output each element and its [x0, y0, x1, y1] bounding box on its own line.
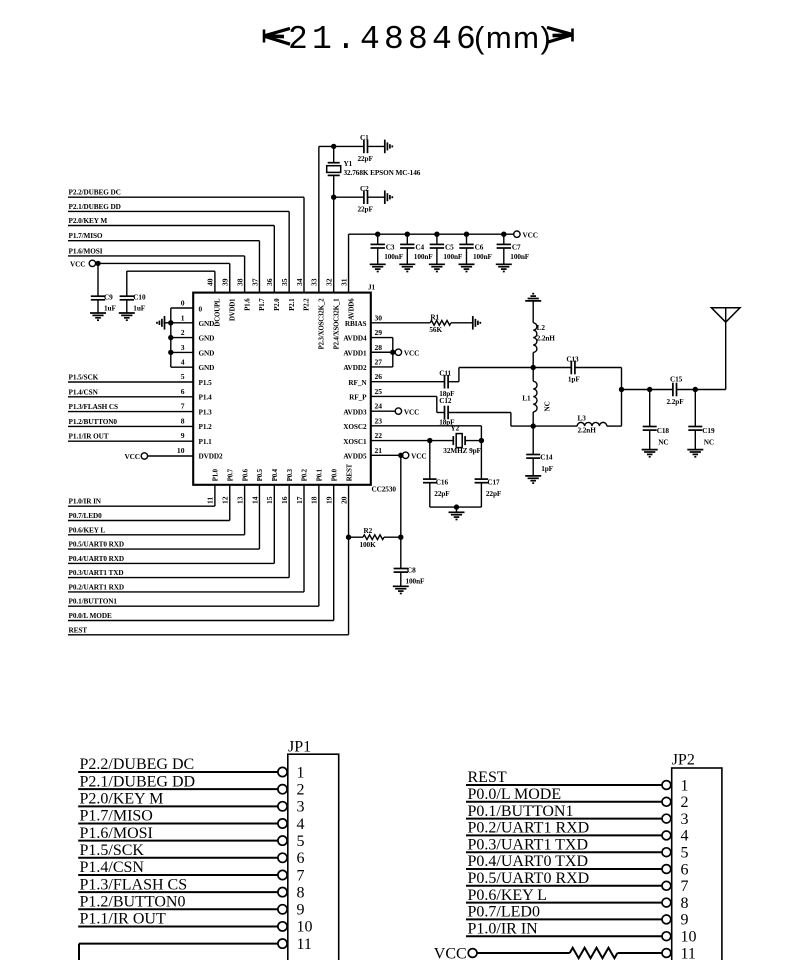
svg-text:P0.3/UART1 TXD: P0.3/UART1 TXD	[69, 569, 124, 577]
svg-text:C1: C1	[360, 134, 369, 142]
svg-text:7: 7	[181, 402, 185, 411]
svg-text:2.2pF: 2.2pF	[667, 398, 685, 406]
svg-text:C13: C13	[566, 355, 579, 363]
net P1.6/MOSI	[68, 247, 245, 292]
JP2 pin 9	[466, 904, 689, 929]
svg-text:22pF: 22pF	[486, 490, 502, 498]
svg-text:XOSC2: XOSC2	[343, 423, 367, 431]
dimension annotation 21.48846 (mm)	[264, 20, 573, 58]
svg-text:REST: REST	[346, 463, 353, 481]
svg-text:AVDD6: AVDD6	[348, 298, 355, 320]
power VCC pullup to JP2 pin 11	[434, 945, 662, 960]
wire antenna feed	[622, 387, 673, 392]
svg-text:18: 18	[310, 496, 319, 504]
svg-text:C7: C7	[512, 243, 521, 251]
svg-text:R1: R1	[430, 313, 439, 321]
svg-text:100nF: 100nF	[443, 253, 463, 261]
wire GND bracket pins 0-4	[164, 308, 194, 367]
net P0.3/UART1 TXD	[68, 485, 289, 578]
svg-text:12: 12	[221, 496, 230, 504]
svg-text:1uF: 1uF	[104, 305, 116, 313]
svg-text:P1.5: P1.5	[199, 379, 213, 387]
JP2 pin 4	[466, 820, 689, 845]
ground C7	[496, 264, 512, 271]
svg-text:AVDD5: AVDD5	[343, 453, 367, 461]
capacitor C10 1uF	[120, 271, 215, 313]
svg-text:P1.6/MOSI: P1.6/MOSI	[69, 247, 103, 255]
svg-text:C6: C6	[475, 243, 484, 251]
power VCC to DVDD2 pin 10	[125, 453, 194, 461]
ground C4	[399, 264, 415, 271]
svg-text:24: 24	[375, 402, 383, 411]
svg-text:7: 7	[297, 867, 305, 884]
svg-text:38: 38	[235, 278, 244, 286]
svg-text:40: 40	[206, 278, 215, 286]
ground Y2 caps	[449, 512, 465, 519]
capacitor C18 NC	[643, 390, 670, 450]
capacitor C12 18pF on RF_P	[371, 396, 533, 426]
svg-text:P0.0/L MODE: P0.0/L MODE	[468, 786, 562, 803]
svg-text:DCOUPL: DCOUPL	[215, 298, 222, 327]
svg-text:Y2: Y2	[451, 424, 460, 432]
svg-text:P0.2/UART1 RXD: P0.2/UART1 RXD	[69, 583, 125, 591]
svg-text:VCC: VCC	[125, 453, 140, 461]
svg-text:P2.2: P2.2	[304, 298, 311, 311]
svg-text:P0.6/KEY L: P0.6/KEY L	[69, 526, 106, 534]
inductor L2 2.2nH	[531, 323, 556, 370]
svg-text:27: 27	[375, 357, 383, 366]
svg-text:29: 29	[375, 328, 383, 337]
capacitor C13 1pF	[533, 355, 621, 383]
IC left pin names	[199, 305, 224, 460]
crystal Y1 32.768K EPSON MC-146	[327, 146, 421, 292]
svg-text:22pF: 22pF	[358, 155, 374, 163]
svg-text:AVDD2: AVDD2	[343, 364, 367, 372]
svg-text:16: 16	[280, 496, 289, 504]
svg-text:P1.0/IR IN: P1.0/IR IN	[468, 920, 539, 937]
svg-text:C16: C16	[436, 478, 449, 486]
svg-text:P1.6/MOSI: P1.6/MOSI	[80, 825, 153, 842]
svg-text:(mm): (mm)	[474, 20, 552, 55]
IC top pin names rotated	[215, 298, 356, 350]
svg-text:L2: L2	[537, 324, 546, 332]
svg-text:P1.1/IR OUT: P1.1/IR OUT	[69, 433, 109, 441]
JP1 pin 5	[78, 825, 304, 850]
svg-text:14: 14	[250, 496, 259, 504]
svg-text:11: 11	[206, 497, 215, 504]
svg-text:C3: C3	[386, 243, 395, 251]
svg-text:P0.4: P0.4	[272, 468, 279, 481]
svg-text:1pF: 1pF	[541, 465, 553, 473]
svg-text:VCC: VCC	[434, 945, 467, 960]
net P1.4/CSN	[68, 388, 193, 397]
svg-text:9: 9	[181, 431, 185, 440]
svg-text:2.2nH: 2.2nH	[578, 427, 597, 435]
capacitor C2 22pF	[331, 185, 385, 214]
svg-text:P1.7/MISO: P1.7/MISO	[80, 808, 153, 825]
svg-text:P1.7/MISO: P1.7/MISO	[69, 232, 103, 240]
svg-text:5: 5	[181, 372, 185, 381]
JP2 pin 10	[466, 920, 697, 945]
net P0.0/L MODE	[68, 485, 334, 621]
ground R1	[473, 316, 481, 330]
svg-text:C15: C15	[670, 376, 683, 384]
svg-text:P1.4: P1.4	[199, 394, 213, 402]
svg-text:36: 36	[265, 278, 274, 286]
JP2 pin 3	[466, 803, 689, 828]
svg-text:VCC: VCC	[404, 350, 419, 358]
JP1 pin 3	[78, 791, 304, 816]
svg-text:10: 10	[297, 919, 313, 936]
svg-text:13: 13	[235, 496, 244, 504]
svg-text:P1.3/FLASH CS: P1.3/FLASH CS	[80, 876, 188, 893]
svg-text:C9: C9	[104, 294, 113, 302]
svg-text:P1.1: P1.1	[199, 438, 213, 446]
svg-text:C4: C4	[415, 243, 424, 251]
capacitor C1 22pF	[358, 134, 385, 163]
svg-text:32MHZ 9pF: 32MHZ 9pF	[443, 447, 481, 455]
svg-text:6: 6	[181, 387, 185, 396]
svg-text:GND: GND	[199, 364, 215, 372]
svg-text:1: 1	[181, 313, 185, 322]
ground C14	[525, 476, 541, 483]
svg-text:100nF: 100nF	[384, 253, 404, 261]
svg-text:100K: 100K	[360, 541, 377, 549]
ground C8	[393, 586, 409, 593]
svg-text:P2.0/KEY M: P2.0/KEY M	[69, 217, 108, 225]
svg-text:P1.5/SCK: P1.5/SCK	[80, 842, 145, 859]
svg-text:L3: L3	[578, 414, 587, 422]
svg-text:P2.1/DUBEG DD: P2.1/DUBEG DD	[80, 773, 196, 790]
svg-text:1: 1	[297, 764, 305, 781]
ground C5	[429, 264, 445, 271]
svg-text:P2.4/XSOC32K_1: P2.4/XSOC32K_1	[333, 298, 340, 350]
net P1.0/IR IN	[68, 485, 215, 506]
svg-text:C18: C18	[657, 427, 670, 435]
svg-text:P0.2: P0.2	[302, 468, 309, 481]
svg-text:25: 25	[375, 387, 383, 396]
ground C1	[385, 140, 393, 154]
svg-text:9: 9	[297, 902, 305, 919]
svg-text:21: 21	[375, 446, 383, 455]
JP2 pin 11	[662, 945, 696, 960]
svg-text:P0.0: P0.0	[331, 468, 338, 481]
JP1 pin 11	[79, 936, 312, 960]
svg-text:10: 10	[177, 446, 185, 455]
connector JP1	[288, 739, 339, 960]
svg-text:6: 6	[297, 850, 305, 867]
net P1.7/MISO	[68, 232, 259, 292]
svg-text:JP2: JP2	[672, 752, 695, 769]
svg-text:XOSC1: XOSC1	[343, 438, 367, 446]
svg-text:P2.0: P2.0	[274, 298, 281, 311]
svg-text:17: 17	[295, 496, 304, 504]
svg-text:DVDD2: DVDD2	[199, 453, 224, 461]
svg-text:P0.6: P0.6	[242, 468, 249, 481]
JP1 pin 6	[78, 842, 304, 867]
svg-text:VCC: VCC	[404, 409, 419, 417]
capacitor C14 1pF	[526, 426, 553, 476]
svg-text:31: 31	[339, 278, 348, 286]
svg-text:JP1: JP1	[288, 739, 311, 756]
svg-text:C14: C14	[540, 454, 553, 462]
svg-text:4: 4	[181, 357, 185, 366]
svg-text:23: 23	[375, 416, 383, 425]
JP1 pin 2	[78, 773, 304, 798]
power VCC to DVDD1 pin 39	[70, 260, 230, 292]
svg-text:32.768K EPSON MC-146: 32.768K EPSON MC-146	[344, 169, 421, 177]
net P1.5/SCK	[68, 374, 193, 383]
svg-text:35: 35	[280, 278, 289, 286]
svg-text:P0.5: P0.5	[257, 468, 264, 481]
svg-text:15: 15	[265, 496, 274, 504]
svg-text:AVDD4: AVDD4	[343, 335, 367, 343]
power VCC to AVDD5 pin 21	[371, 452, 427, 461]
svg-text:20: 20	[339, 496, 348, 504]
svg-text:100nF: 100nF	[414, 253, 434, 261]
svg-text:30: 30	[375, 313, 383, 322]
svg-text:4: 4	[297, 816, 305, 833]
svg-text:22pF: 22pF	[358, 206, 374, 214]
svg-text:L1: L1	[522, 394, 531, 402]
svg-text:P0.7/LED0: P0.7/LED0	[69, 512, 103, 520]
svg-text:NC: NC	[544, 401, 552, 411]
power VCC to AVDD4 AVDD1 AVDD2	[371, 338, 420, 367]
capacitor C5 100nF	[430, 232, 463, 265]
svg-text:P1.3/FLASH CS: P1.3/FLASH CS	[69, 403, 119, 411]
ground pins GND	[157, 316, 165, 330]
svg-text:C17: C17	[487, 478, 500, 486]
IC bottom pin names rotated	[213, 463, 354, 481]
svg-text:NC: NC	[658, 438, 668, 446]
svg-text:5: 5	[681, 845, 689, 862]
svg-text:3: 3	[297, 799, 305, 816]
svg-text:GND: GND	[199, 349, 215, 357]
svg-text:J1: J1	[368, 284, 376, 292]
svg-text:11: 11	[681, 945, 696, 960]
svg-text:22pF: 22pF	[434, 490, 450, 498]
svg-text:P1.2: P1.2	[199, 423, 213, 431]
svg-text:32: 32	[325, 278, 334, 286]
IC pin numbers	[177, 278, 382, 504]
svg-text:C8: C8	[407, 566, 416, 574]
svg-text:RF_N: RF_N	[348, 379, 367, 387]
svg-text:8: 8	[297, 884, 305, 901]
svg-text:P0.3: P0.3	[287, 468, 294, 481]
net P0.6/KEY L	[68, 485, 245, 535]
svg-text:VCC: VCC	[411, 453, 426, 461]
svg-text:P1.4/CSN: P1.4/CSN	[80, 859, 145, 876]
svg-text:P2.2/DUBEG DC: P2.2/DUBEG DC	[80, 756, 195, 773]
svg-text:2: 2	[181, 328, 185, 337]
svg-text:8: 8	[181, 416, 185, 425]
svg-text:R2: R2	[364, 527, 373, 535]
svg-text:P0.4/UART0 TXD: P0.4/UART0 TXD	[468, 853, 589, 870]
JP2 pin 1	[466, 769, 689, 794]
resistor R2 100K	[346, 455, 404, 549]
JP1 pin 1	[78, 756, 304, 781]
svg-text:2: 2	[297, 781, 305, 798]
antenna E1	[711, 308, 740, 390]
crystal Y2 32MHZ 9pF	[371, 424, 484, 455]
svg-text:P1.1/IR OUT: P1.1/IR OUT	[80, 911, 166, 928]
svg-text:C2: C2	[360, 185, 369, 193]
svg-text:P0.7: P0.7	[227, 468, 234, 481]
svg-text:RF_P: RF_P	[349, 394, 367, 402]
svg-text:VCC: VCC	[523, 232, 538, 240]
capacitor C3 100nF	[371, 232, 404, 265]
IC right pin names	[343, 320, 367, 460]
svg-text:8: 8	[681, 895, 689, 912]
resistor JP2 pullup	[570, 948, 618, 958]
svg-text:19: 19	[325, 496, 334, 504]
svg-text:P0.1: P0.1	[317, 468, 324, 481]
svg-text:C19: C19	[702, 427, 715, 435]
svg-text:10: 10	[681, 929, 697, 946]
svg-text:CC2530: CC2530	[372, 486, 397, 494]
inductor L3 2.2nH	[533, 414, 621, 434]
svg-text:100nF: 100nF	[406, 577, 426, 585]
capacitor C17 22pF	[475, 441, 502, 508]
svg-text:2: 2	[681, 794, 689, 811]
resistor R1 56K	[371, 313, 473, 333]
connector JP2	[672, 752, 722, 960]
svg-text:P0.0/L MODE: P0.0/L MODE	[69, 612, 112, 620]
ground C19	[687, 450, 703, 457]
svg-text:P1.7: P1.7	[259, 298, 266, 311]
svg-text:P2.1: P2.1	[289, 298, 296, 311]
capacitor C6 100nF	[459, 232, 492, 265]
svg-text:3: 3	[681, 811, 689, 828]
svg-text:REST: REST	[69, 626, 88, 634]
JP2 pin 6	[466, 853, 689, 878]
svg-text:0: 0	[181, 299, 185, 308]
svg-text:26: 26	[375, 372, 383, 381]
svg-text:P0.5/UART0 RXD: P0.5/UART0 RXD	[468, 870, 590, 887]
svg-text:0: 0	[199, 305, 203, 313]
svg-text:100nF: 100nF	[510, 253, 530, 261]
svg-text:1pF: 1pF	[568, 375, 580, 383]
wire pin33 to C1	[319, 144, 364, 293]
svg-text:C11: C11	[439, 370, 451, 378]
svg-text:C5: C5	[445, 243, 454, 251]
ground C3	[370, 264, 386, 271]
svg-text:1: 1	[681, 777, 689, 794]
JP1 pin 10	[78, 911, 312, 936]
net P0.4/UART0 RXD	[68, 485, 274, 564]
inductor L1 NC	[522, 368, 551, 429]
svg-text:P1.4/CSN: P1.4/CSN	[69, 388, 99, 396]
ground C9	[90, 313, 106, 320]
wire C13-L3 join	[619, 368, 624, 427]
JP2 pin 7	[466, 870, 689, 895]
svg-text:P0.1/BUTTON1: P0.1/BUTTON1	[69, 598, 118, 606]
svg-text:VCC: VCC	[70, 260, 85, 268]
svg-text:21.48846: 21.48846	[288, 21, 480, 58]
svg-text:RBIAS: RBIAS	[345, 320, 367, 328]
net P1.3/FLASH CS	[68, 403, 193, 412]
svg-text:22: 22	[375, 431, 383, 440]
svg-text:7: 7	[681, 878, 689, 895]
svg-text:P2.3/XOSC32K_2: P2.3/XOSC32K_2	[319, 298, 326, 350]
svg-text:P2.0/KEY M: P2.0/KEY M	[80, 791, 164, 808]
svg-text:P1.6: P1.6	[244, 298, 251, 311]
capacitor C11 18pF on RF_N	[371, 368, 533, 399]
svg-text:P0.4/UART0 RXD: P0.4/UART0 RXD	[69, 555, 125, 563]
net P0.5/UART0 RXD	[68, 485, 259, 549]
svg-text:P1.0/IR IN: P1.0/IR IN	[69, 498, 102, 506]
svg-text:39: 39	[221, 278, 230, 286]
capacitor C4 100nF	[400, 232, 433, 265]
net P1.2/BUTTON0	[68, 418, 193, 427]
svg-text:100nF: 100nF	[473, 253, 493, 261]
svg-text:P1.5/SCK: P1.5/SCK	[69, 374, 99, 382]
capacitor C9 1uF	[91, 263, 117, 313]
svg-text:P1.3: P1.3	[199, 408, 213, 416]
svg-text:P1.2/BUTTON0: P1.2/BUTTON0	[80, 893, 186, 910]
svg-text:P1.0: P1.0	[213, 468, 220, 481]
JP1 pin 9	[78, 893, 304, 918]
ground C6	[459, 264, 475, 271]
svg-text:NC: NC	[704, 438, 714, 446]
svg-text:REST: REST	[468, 769, 507, 786]
svg-text:37: 37	[250, 278, 259, 286]
JP2 pin 5	[466, 836, 689, 861]
wire C16 C17 common	[430, 504, 482, 512]
svg-text:P2.2/DUBEG DC: P2.2/DUBEG DC	[69, 189, 121, 197]
power VCC to AVDD3 pin 24	[371, 408, 420, 417]
svg-text:P0.5/UART0 RXD: P0.5/UART0 RXD	[69, 541, 125, 549]
net P0.7/LED0	[68, 485, 230, 521]
ground L2 top inverted	[525, 294, 541, 323]
ground C2	[385, 190, 393, 204]
svg-text:2.2nH: 2.2nH	[537, 334, 556, 342]
JP1 pin 7	[78, 859, 304, 884]
capacitor C19 NC	[688, 390, 715, 450]
svg-text:9: 9	[681, 912, 689, 929]
capacitor C7 100nF	[497, 232, 530, 265]
svg-text:56K: 56K	[429, 326, 442, 334]
net P1.1/IR OUT	[68, 433, 193, 442]
svg-text:P0.2/UART1 RXD: P0.2/UART1 RXD	[468, 820, 590, 837]
svg-text:C12: C12	[439, 397, 452, 405]
capacitor C15 2.2pF	[667, 376, 726, 406]
svg-text:34: 34	[295, 278, 304, 286]
net P0.1/BUTTON1	[68, 485, 319, 606]
net REST	[68, 485, 349, 635]
svg-text:1uF: 1uF	[133, 305, 145, 313]
op IC U1 CC2530 body J1	[193, 284, 396, 494]
svg-text:P0.7/LED0: P0.7/LED0	[468, 904, 540, 921]
net P2.0/KEY M	[68, 217, 274, 293]
JP1 pin 4	[78, 808, 304, 833]
svg-text:3: 3	[181, 343, 185, 352]
JP2 pin 2	[466, 786, 689, 811]
svg-text:P2.1/DUBEG DD: P2.1/DUBEG DD	[69, 203, 121, 211]
svg-text:33: 33	[310, 278, 319, 286]
svg-text:P0.3/UART1 TXD: P0.3/UART1 TXD	[468, 836, 589, 853]
svg-text:6: 6	[681, 861, 689, 878]
JP2 pin 8	[466, 887, 689, 912]
ground C18	[642, 450, 658, 457]
svg-text:P1.2/BUTTON0: P1.2/BUTTON0	[69, 418, 118, 426]
svg-text:Y1: Y1	[344, 160, 353, 168]
svg-text:P0.6/KEY L: P0.6/KEY L	[468, 887, 547, 904]
svg-text:5: 5	[297, 833, 305, 850]
svg-text:GND: GND	[199, 320, 215, 328]
svg-text:AVDD1: AVDD1	[343, 349, 367, 357]
svg-text:28: 28	[375, 343, 383, 352]
